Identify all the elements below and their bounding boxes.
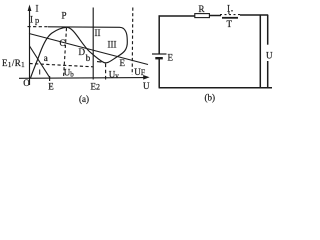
svg-text:p: p xyxy=(35,15,39,25)
svg-text:U: U xyxy=(143,81,150,91)
svg-text:P: P xyxy=(62,11,67,21)
svg-text:T: T xyxy=(227,19,233,29)
svg-text:D: D xyxy=(79,47,86,57)
svg-text:R: R xyxy=(199,4,205,14)
svg-text:C: C xyxy=(60,38,66,48)
svg-text:a: a xyxy=(44,53,48,63)
svg-text:E2: E2 xyxy=(91,82,101,92)
svg-text:III: III xyxy=(108,39,117,49)
svg-text:E: E xyxy=(48,81,54,91)
svg-text:b: b xyxy=(86,53,91,63)
svg-text:I: I xyxy=(36,4,39,14)
svg-text:(b): (b) xyxy=(205,93,216,103)
svg-text:UF: UF xyxy=(134,67,146,77)
svg-text:E: E xyxy=(168,53,174,63)
svg-text:I: I xyxy=(30,15,33,25)
svg-text:II: II xyxy=(95,28,101,38)
svg-text:U: U xyxy=(266,51,273,61)
svg-text:E: E xyxy=(120,58,126,68)
svg-text:(a): (a) xyxy=(79,94,89,104)
svg-text:O: O xyxy=(23,78,30,88)
